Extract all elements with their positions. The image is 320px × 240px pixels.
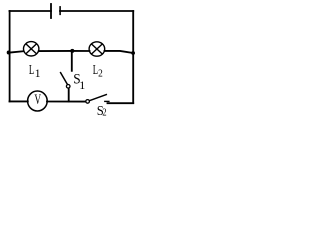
switch S1 blade bbox=[60, 72, 67, 85]
svg-text:2: 2 bbox=[98, 68, 103, 80]
wire left rail bbox=[9, 11, 11, 101]
switch S1 pivot circle bbox=[66, 85, 70, 89]
battery long plate (+) bbox=[50, 4, 52, 18]
switch S2 blade bbox=[89, 94, 107, 100]
wire right rail bbox=[132, 11, 134, 103]
wire middle-right (L2 to right rail) bbox=[105, 51, 134, 53]
wire S1 branch upper (node to switch contact) bbox=[71, 51, 73, 71]
node dot left bbox=[7, 51, 11, 55]
wire bottom-right (S2 contact to right rail) bbox=[108, 102, 134, 104]
svg-text:L: L bbox=[29, 63, 34, 77]
wire middle-center (L1 to L2 through node) bbox=[39, 50, 90, 52]
lamp L1 bbox=[24, 42, 39, 56]
voltmeter V bbox=[28, 91, 48, 111]
node dot middle bbox=[70, 49, 74, 53]
wire bottom-left (left rail to voltmeter) bbox=[10, 100, 28, 102]
svg-text:2: 2 bbox=[102, 108, 107, 119]
wire top-right (battery - to right rail) bbox=[60, 10, 133, 12]
svg-text:V: V bbox=[34, 91, 41, 108]
svg-text:1: 1 bbox=[35, 68, 41, 80]
svg-text:1: 1 bbox=[79, 78, 85, 92]
wire bottom-middle (voltmeter to switch S2) bbox=[47, 101, 86, 103]
wire top-left (top rail to battery +) bbox=[10, 10, 52, 12]
wire middle-left (left rail to lamp L1) bbox=[10, 51, 24, 52]
battery short plate (-) bbox=[59, 7, 61, 14]
node dot right bbox=[131, 51, 135, 55]
wire S2 fixed contact stub bbox=[105, 100, 109, 102]
switch S2 pivot circle bbox=[86, 100, 90, 104]
lamp L2 bbox=[89, 42, 105, 56]
wire S1 branch lower (switch circle to bottom rail) bbox=[68, 88, 70, 102]
